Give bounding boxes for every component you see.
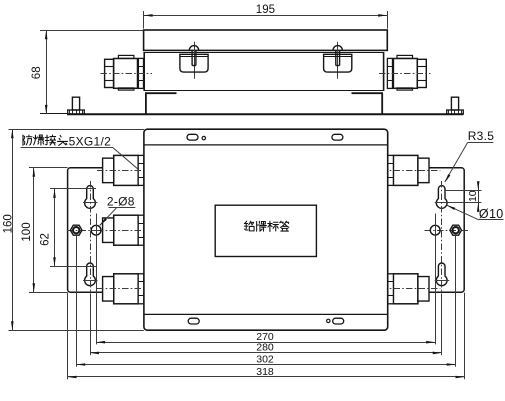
- svg-text:318: 318: [256, 366, 274, 378]
- svg-text:R3.5: R3.5: [468, 129, 495, 143]
- svg-text:10: 10: [467, 190, 479, 202]
- svg-text:Ø10: Ø10: [479, 207, 504, 221]
- svg-text:2-Ø8: 2-Ø8: [107, 195, 135, 209]
- svg-text:100: 100: [21, 222, 33, 241]
- svg-text:62: 62: [40, 233, 52, 246]
- svg-text:5XG1/2: 5XG1/2: [69, 134, 112, 148]
- svg-text:160: 160: [3, 214, 15, 233]
- svg-text:302: 302: [256, 353, 274, 365]
- svg-text:280: 280: [256, 342, 274, 354]
- svg-text:68: 68: [31, 66, 43, 79]
- svg-text:195: 195: [256, 4, 275, 16]
